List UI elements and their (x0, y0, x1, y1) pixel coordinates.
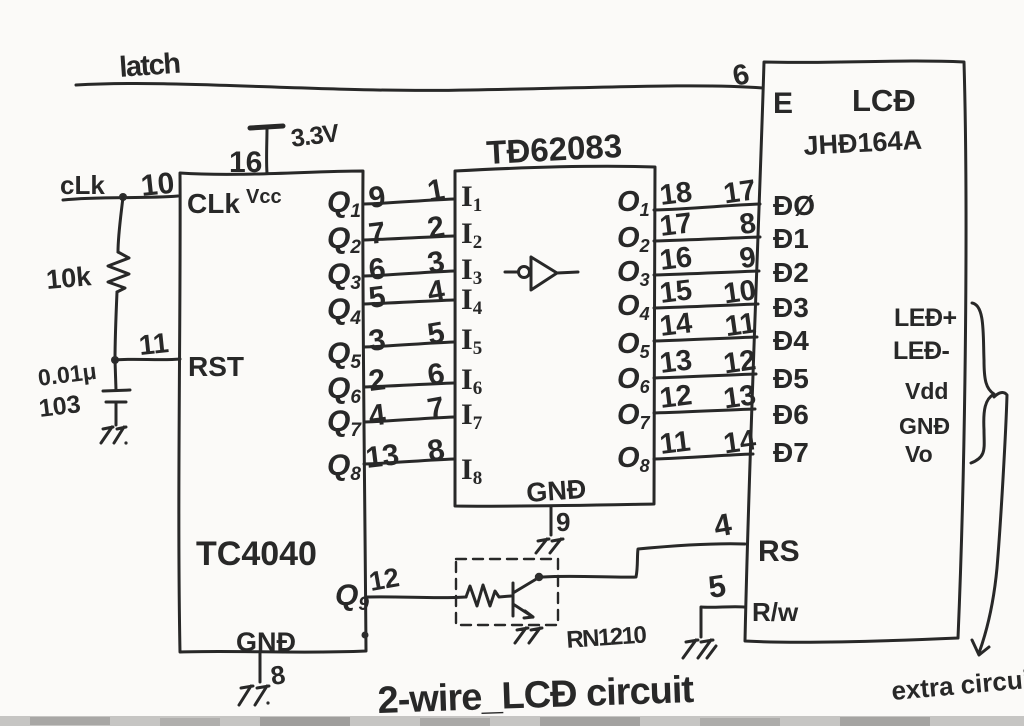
svg-text:17: 17 (658, 207, 694, 243)
svg-text:Vdd: Vdd (905, 378, 948, 404)
wire CLK input (63, 196, 178, 200)
svg-text:GNĐ: GNĐ (236, 627, 296, 657)
svg-text:15: 15 (658, 274, 694, 310)
wire Q1 to I1 (364, 199, 454, 204)
svg-text:LEĐ-: LEĐ- (893, 337, 950, 365)
wire Q3 to I3 (364, 271, 454, 276)
wire Q4 to I4 (364, 300, 454, 304)
svg-text:12: 12 (367, 562, 402, 597)
wire latch net (76, 83, 763, 90)
node RST junction (111, 356, 119, 364)
IC TD62083 box (455, 166, 655, 506)
svg-text:TC4040: TC4040 (196, 535, 317, 573)
svg-text:RS: RS (758, 535, 800, 568)
svg-text:GNĐ: GNĐ (899, 413, 950, 439)
ground for R/W (683, 640, 716, 658)
svg-text:11: 11 (658, 425, 692, 460)
svg-text:latch: latch (118, 48, 180, 84)
wire Q2 to I2 (364, 236, 454, 240)
svg-text:ĐØ: ĐØ (773, 190, 815, 221)
wire Q7 to I7 (364, 417, 454, 422)
svg-text:13: 13 (658, 344, 694, 380)
IC TC4040 box (179, 171, 366, 652)
wire O1 to D0 (654, 204, 760, 210)
wire Q9 to transistor (366, 595, 466, 599)
svg-text:cLk: cLk (60, 170, 105, 200)
wire O4 to D3 (654, 304, 758, 308)
svg-text:9: 9 (556, 507, 570, 537)
svg-text:14: 14 (658, 307, 694, 343)
svg-text:103: 103 (37, 390, 82, 423)
svg-text:13: 13 (364, 438, 401, 475)
power 3.3V bar (250, 126, 283, 128)
svg-text:10k: 10k (45, 261, 93, 295)
svg-text:12: 12 (658, 379, 694, 415)
svg-text:Vo: Vo (905, 441, 933, 467)
wire R/W to ground (701, 607, 744, 637)
svg-text:Đ6: Đ6 (773, 399, 809, 430)
wire Q8 to I8 (364, 459, 454, 464)
svg-text:Đ3: Đ3 (773, 292, 809, 323)
transistor Q1 RN1210 (512, 583, 515, 616)
wire O7 to D6 (654, 409, 755, 413)
wire GND pin 8 of TC4040 (259, 653, 262, 682)
svg-text:LCĐ: LCĐ (852, 83, 916, 118)
resistor inside RN1210 (466, 585, 511, 606)
wire O2 to D1 (654, 237, 760, 241)
svg-text:17: 17 (722, 174, 758, 210)
svg-text:Đ5: Đ5 (773, 363, 809, 394)
ground for TC4040 (239, 686, 269, 705)
svg-text:LEĐ+: LEĐ+ (894, 304, 957, 332)
capacitor C1 0.01u plates (103, 390, 130, 402)
svg-text:Đ7: Đ7 (773, 437, 809, 468)
wire Q5 to I5 (364, 342, 454, 347)
wire RS net (543, 544, 745, 577)
svg-text:11: 11 (137, 327, 170, 361)
svg-text:RN1210: RN1210 (566, 621, 648, 654)
wire node to capacitor (115, 360, 116, 390)
ground for capacitor (101, 427, 126, 443)
svg-text:TĐ62083: TĐ62083 (485, 127, 623, 171)
wire RST (115, 359, 180, 360)
svg-text:E: E (773, 87, 793, 120)
wire O8 to D7 (654, 454, 753, 459)
wire GND pin 9 of TD62083 (550, 507, 553, 535)
buffer symbol inside TD62083 (505, 271, 518, 274)
LCD box JHD164A (745, 61, 966, 642)
svg-text:Đ4: Đ4 (773, 325, 809, 356)
wire extra circuit arrow (979, 393, 1007, 653)
svg-text:JHĐ164A: JHĐ164A (803, 125, 923, 161)
svg-text:CLk: CLk (187, 188, 240, 219)
wire O5 to D4 (654, 337, 757, 341)
node stray dot TC4040 corner (362, 632, 369, 639)
svg-text:Đ2: Đ2 (773, 257, 809, 288)
ground for emitter (515, 628, 542, 643)
svg-text:Đ1: Đ1 (773, 223, 809, 254)
wire resistor to RST node (115, 292, 117, 360)
wire 3.3V to Vcc pin (265, 128, 268, 173)
transistor RN1210 dashed box (456, 559, 558, 625)
ground for TD62083 (536, 539, 563, 553)
svg-text:3.3V: 3.3V (289, 119, 341, 153)
brace for LED pins (971, 303, 994, 463)
wire Q6 to I6 (364, 383, 454, 387)
node collector junction (535, 573, 543, 581)
svg-text:10: 10 (722, 274, 758, 310)
svg-text:R/w: R/w (752, 597, 799, 627)
wire capacitor to ground (115, 402, 118, 425)
svg-text:10: 10 (139, 167, 176, 203)
wire O3 to D2 (654, 271, 759, 275)
scan edge band (0, 716, 1024, 726)
wire O6 to D5 (654, 374, 756, 378)
svg-text:RST: RST (188, 351, 244, 382)
resistor R1 10k (108, 252, 129, 292)
wire junction to resistor (118, 197, 123, 252)
svg-text:16: 16 (658, 241, 694, 277)
svg-text:11: 11 (723, 307, 758, 343)
svg-text:GNĐ: GNĐ (525, 474, 587, 508)
node CLK junction (119, 193, 127, 201)
svg-text:Vcc: Vcc (246, 186, 282, 208)
